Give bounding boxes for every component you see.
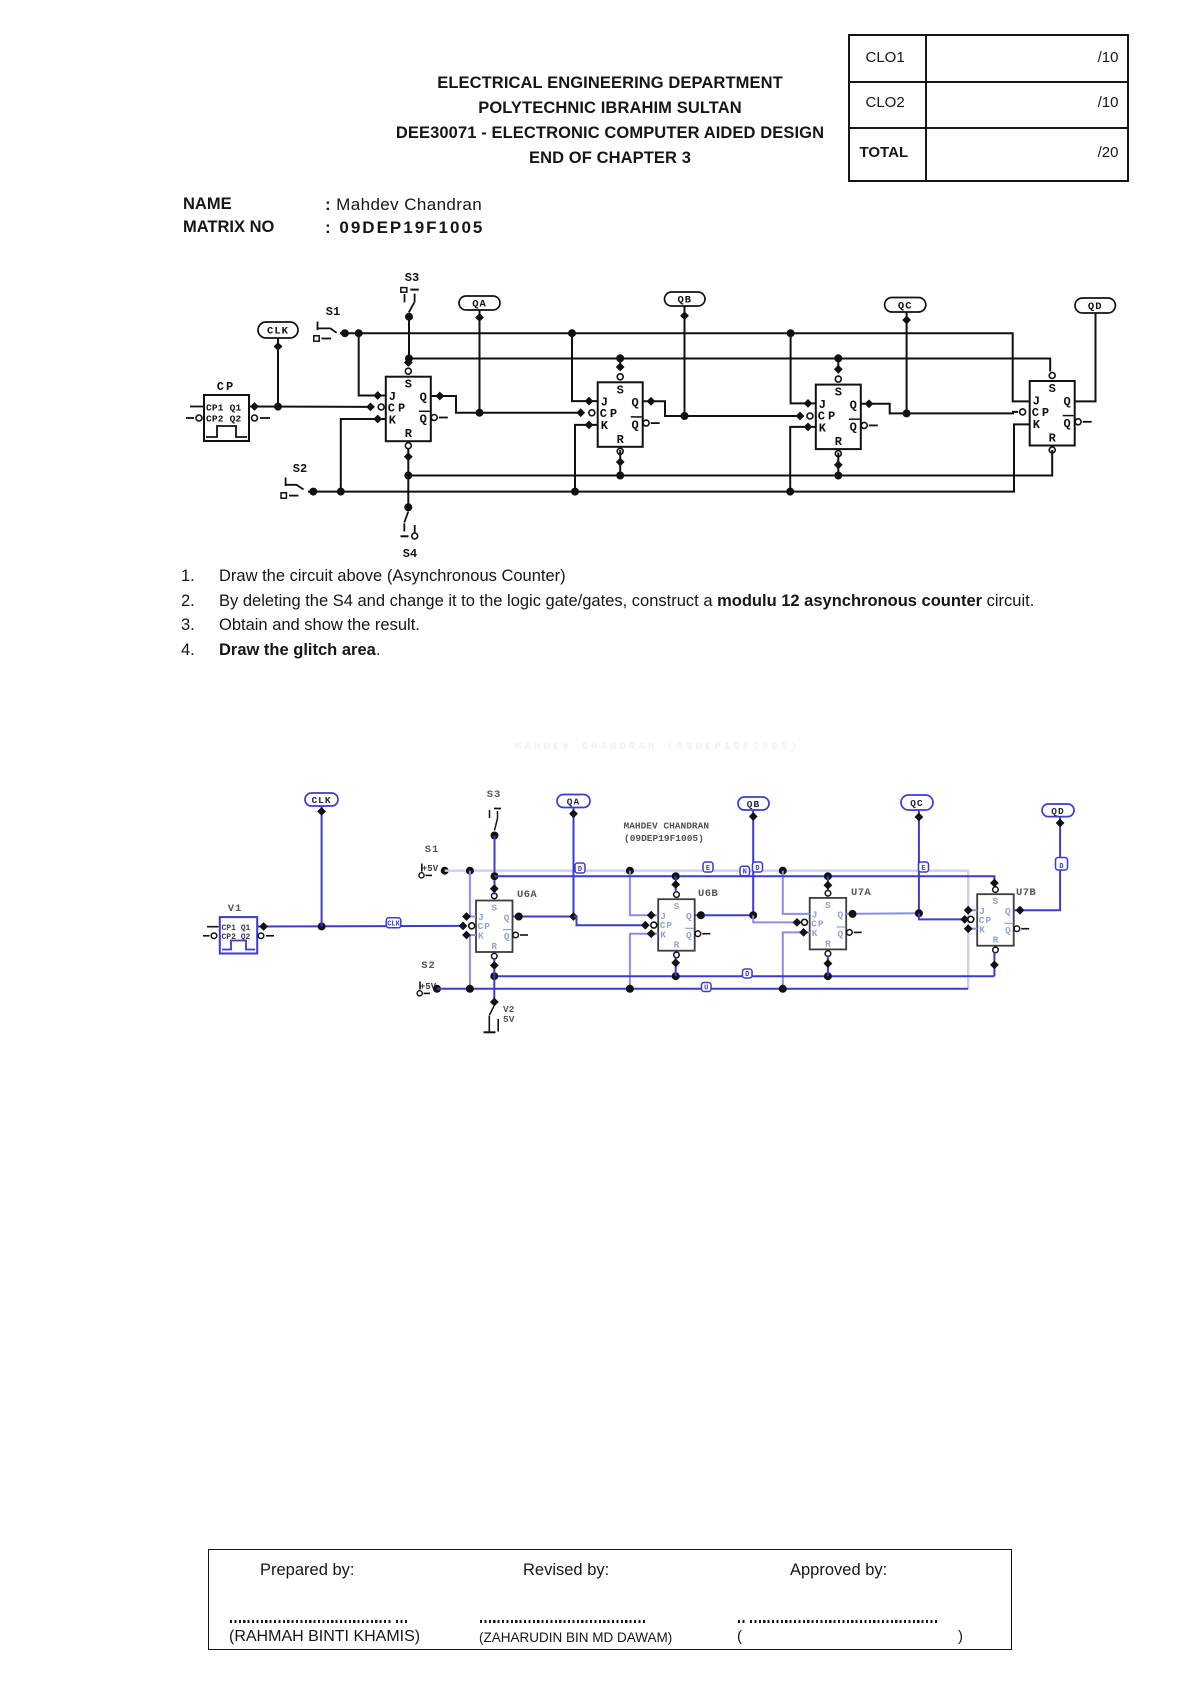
junction K drop FF1 (337, 488, 345, 496)
junction R drop FF1 (404, 472, 412, 480)
JK flip-flop U6B (658, 892, 710, 958)
wire U6B R drop (675, 958, 677, 977)
pin node CLK flag (274, 342, 283, 351)
wire S rail to U6B S (675, 876, 677, 892)
pulse source V1 (203, 903, 274, 954)
svg-text:S2: S2 (293, 462, 307, 476)
svg-text:5V: 5V (503, 1014, 515, 1025)
wire FF4 Q to QD flag (1075, 313, 1096, 401)
svg-text:S: S (993, 896, 999, 907)
wire S3 to U6A S (494, 836, 496, 895)
clock bubble FF1 (378, 404, 384, 410)
svg-text:K: K (819, 421, 827, 435)
marks table (848, 34, 1129, 182)
svg-text:CP2 Q2: CP2 Q2 (206, 414, 242, 425)
pin node FF1 S (404, 358, 413, 367)
net flag QC (885, 298, 926, 313)
junction CLK tap (274, 403, 282, 411)
junction R drop FF3 (834, 472, 842, 480)
wire CLK flag drop (321, 806, 323, 926)
pin node U7B R (990, 961, 999, 970)
switch S3 (401, 271, 419, 312)
wire U7A K drop (783, 932, 810, 988)
svg-text:Q: Q (837, 929, 843, 940)
wire QC flag drop (918, 810, 920, 913)
pin node U6A J (462, 912, 471, 921)
svg-text:Q: Q (850, 399, 857, 413)
pin node QA flag (569, 809, 578, 818)
pin node FF1 Q (435, 392, 444, 401)
svg-text:MAHDEV CHANDRAN (09DEP19F1005): MAHDEV CHANDRAN (09DEP19F1005) (515, 741, 800, 753)
junction JK drop U6A (466, 867, 474, 875)
junction S2 lever (309, 488, 317, 496)
junction S rail origin (405, 355, 413, 363)
switch S1 (314, 305, 340, 341)
svg-text:Q: Q (504, 912, 510, 923)
svg-text:N: N (743, 869, 747, 877)
svg-text:S2: S2 (421, 960, 436, 972)
wire rail to FF3 J (791, 333, 816, 403)
net flag CLK (blue) (305, 793, 338, 806)
JK flip-flop FF2 (598, 374, 660, 455)
clock bubble U6A (469, 923, 475, 929)
switch S2 (281, 462, 307, 498)
svg-text:+5V: +5V (422, 864, 439, 874)
junction S3 lever (405, 313, 413, 321)
pin node FF2 J (585, 397, 594, 406)
svg-text:E: E (706, 865, 710, 873)
wire U6B Q to QB junction (695, 914, 754, 916)
svg-text:CLK: CLK (387, 921, 400, 929)
net flag QA (blue) (557, 795, 590, 808)
wire K rail (S2 +5V) (437, 988, 968, 990)
pin node QD flag (1056, 819, 1065, 828)
net flag QC (blue) (901, 795, 933, 810)
JK flip-flop FF3 (816, 376, 878, 457)
wire U6A K stub (470, 934, 476, 936)
pin node U7A Q (849, 910, 857, 918)
pin node U7A CP (793, 918, 802, 927)
pin node QB flag (749, 812, 758, 821)
wire U6A R to V2 (493, 958, 495, 1000)
wire U7A Q to QC junction (846, 912, 919, 915)
wire FF1 Q to FF2 CP (431, 396, 581, 413)
net flag QD (1075, 298, 1115, 313)
svg-text:QB: QB (747, 799, 760, 810)
svg-text:R: R (617, 433, 625, 447)
junction R drop U6A (490, 972, 498, 980)
wire rail to FF1 J (359, 333, 386, 395)
wire K rail from S2 to FF4 K (308, 424, 1030, 491)
switch S1 (+5V) (419, 844, 439, 878)
pin node U7B CP (960, 915, 969, 924)
junction S drop FF2 (616, 354, 624, 362)
svg-text:QD: QD (1088, 301, 1103, 313)
junction J drop FF2 (568, 329, 576, 337)
svg-text:R: R (835, 435, 843, 449)
pin node FF3 CP (796, 412, 805, 421)
JK flip-flop U7B (977, 887, 1029, 953)
svg-text:Q: Q (420, 413, 427, 427)
svg-text:D: D (755, 865, 759, 873)
clock bubble U7A (802, 919, 808, 925)
wire K rail to FF3 K (790, 427, 816, 492)
junction S1 lever (341, 329, 349, 337)
svg-text:D: D (745, 971, 749, 979)
svg-text:R: R (405, 427, 413, 441)
svg-text:U7A: U7A (851, 887, 871, 899)
pin node U7A K (799, 928, 808, 937)
pin node U6B R (671, 958, 680, 967)
pin node FF1 R (404, 452, 413, 461)
junction K drop U7A (779, 985, 787, 993)
svg-text:R: R (1049, 432, 1057, 446)
svg-text:U6B: U6B (698, 888, 718, 900)
header title block (437, 74, 783, 93)
junction S1 output (441, 867, 449, 875)
pin node FF1 K (373, 415, 382, 424)
wire U6A K drop (469, 935, 471, 989)
net flag QA (459, 296, 500, 311)
pin node FF1 CP (366, 403, 375, 412)
pin node U6B J (647, 911, 656, 920)
pin node FF2 CP (576, 408, 585, 417)
junction K drop U6B (626, 985, 634, 993)
net label D (753, 862, 763, 873)
svg-text:QC: QC (910, 798, 923, 809)
svg-text:S: S (617, 383, 624, 397)
wire QB flag drop (752, 810, 754, 915)
JK flip-flop FF1 (386, 368, 448, 449)
svg-text:Q: Q (1005, 925, 1011, 936)
wire QC net to U7B CP (919, 913, 965, 919)
wire S3 to S rail (408, 317, 410, 364)
wire R rail across (408, 450, 1052, 476)
junction S drop U7A (824, 872, 832, 880)
wire FF3 Q to FF4 CP (861, 404, 1018, 414)
pulse source CP (186, 380, 270, 441)
wire CLK flag to CP net (277, 338, 279, 407)
svg-text:K: K (601, 419, 609, 433)
wire QB flag drop (684, 306, 686, 416)
svg-text:K: K (660, 929, 666, 940)
svg-text:S: S (835, 386, 842, 400)
wire U7B R drop (993, 953, 995, 977)
pin node QA flag (475, 313, 484, 322)
junction R drop U6B (672, 972, 680, 980)
switch S3 (circuit 2) (487, 789, 502, 831)
wire S rail to U7A S (827, 876, 829, 890)
net label E (919, 862, 929, 873)
svg-text:E: E (921, 865, 925, 873)
wire U7A R drop (827, 956, 829, 976)
switch S2 (+5V) (417, 960, 437, 996)
svg-text:S: S (674, 901, 680, 912)
question list (181, 567, 195, 586)
svg-text:R: R (825, 938, 831, 949)
wire S rail to FF2 S (619, 358, 621, 369)
pin node U7A S (824, 881, 833, 890)
wire S rail across to FF4 S (409, 359, 1050, 372)
wire FF1 R to S4 (407, 449, 409, 507)
junction QA tap (476, 409, 484, 417)
svg-text:S4: S4 (403, 547, 417, 561)
wire rail to U7A J (783, 871, 810, 914)
junction J drop FF3 (787, 329, 795, 337)
svg-text:Q: Q (504, 931, 510, 942)
junction K drop U6A (466, 985, 474, 993)
junction R drop FF2 (616, 472, 624, 480)
junction CLK tap (318, 922, 326, 930)
pin node U6B K (647, 929, 656, 938)
pin node FF2 Q (647, 397, 656, 406)
wire FF2 R drop (619, 450, 621, 476)
net flag CLK (258, 322, 298, 338)
clock bubble FF2 (589, 410, 595, 416)
junction S rail origin (491, 872, 499, 880)
net label E (703, 862, 713, 873)
clock bubble FF4 (1020, 409, 1026, 415)
pin node U7B K (964, 924, 973, 933)
wire V1 Q1 to U6A CP (257, 925, 463, 928)
pin node U7B Q out (1016, 906, 1025, 915)
wire U7B K stub (968, 928, 977, 930)
junction QA tap (569, 912, 578, 921)
svg-text:V1: V1 (228, 903, 243, 915)
wire CP source Q1 to FF1 CP (249, 406, 371, 408)
pin node U6A R (490, 961, 499, 970)
svg-text:U6A: U6A (517, 889, 537, 901)
svg-text:S1: S1 (326, 305, 340, 319)
pin node FF3 S (834, 365, 843, 374)
pin node U7B J (964, 906, 973, 915)
wire +5V lavender rail (445, 871, 969, 989)
pin node FF3 R (834, 461, 843, 470)
svg-text:U7B: U7B (1016, 887, 1036, 899)
pin node U6A K (462, 931, 471, 940)
battery V2 5V (484, 998, 515, 1033)
JK flip-flop U6A (476, 893, 528, 959)
svg-text:S: S (405, 378, 412, 392)
junction S drop U6B (672, 872, 680, 880)
junction K drop FF3 (786, 488, 794, 496)
pin node U7B S (990, 879, 999, 888)
pin node V1 Q1 (259, 922, 268, 931)
junction K drop FF2 (571, 488, 579, 496)
net label CLK (386, 918, 401, 929)
pin node U6B S (671, 880, 680, 889)
svg-text:Q: Q (850, 421, 857, 435)
junction JK drop U7A (779, 867, 787, 875)
pin node U6B Q (697, 911, 705, 919)
switch S4 (401, 503, 418, 561)
pin node U7A R (824, 959, 833, 968)
junction QC tap (903, 409, 911, 417)
signature footer table (208, 1549, 1012, 1650)
svg-text:Q: Q (1063, 417, 1070, 431)
wire QA flag drop (573, 808, 575, 917)
svg-text:Q: Q (631, 396, 638, 410)
pin node FF1 J (373, 391, 382, 400)
pin node FF3 K (804, 423, 813, 432)
svg-text:MAHDEV CHANDRAN: MAHDEV CHANDRAN (624, 821, 710, 832)
net label N (740, 866, 750, 876)
wire FF2 Q to FF3 CP (643, 401, 800, 416)
wire FF3 R drop (837, 453, 839, 476)
svg-text:S: S (1049, 382, 1056, 396)
pin node U6B CP (641, 921, 650, 930)
wire U7B J stub (968, 909, 977, 911)
pin node FF2 S (616, 363, 625, 372)
junction S2 output (433, 985, 441, 993)
svg-text:U: U (704, 984, 708, 992)
clock bubble U7B (968, 916, 974, 922)
svg-text:D: D (578, 866, 582, 874)
net flag QD (blue) (1042, 804, 1074, 817)
clock bubble FF3 (807, 413, 813, 419)
JK flip-flop U7A (810, 891, 862, 957)
pin node Q1 (250, 402, 259, 411)
name / matrix block (183, 195, 232, 214)
svg-text:QC: QC (898, 300, 913, 312)
pin node U6A S (490, 884, 499, 893)
svg-text:R: R (993, 935, 999, 946)
wire K rail to FF1 K (341, 419, 386, 492)
svg-text:QA: QA (567, 797, 580, 808)
pin node FF2 R (616, 458, 625, 467)
svg-text:CLK: CLK (311, 795, 331, 806)
pin node V2 (490, 998, 499, 1007)
svg-text:Q: Q (1005, 906, 1011, 917)
net label U (702, 983, 712, 993)
net label D (1056, 858, 1068, 871)
svg-text:Q: Q (686, 930, 692, 941)
wire rail to FF2 J (572, 333, 598, 401)
junction J drop FF1 (355, 329, 363, 337)
wire U6A Q to QA junction (513, 916, 574, 918)
wire QC flag drop (906, 312, 908, 413)
svg-text:(09DEP19F1005): (09DEP19F1005) (624, 833, 704, 844)
svg-text:S: S (491, 903, 497, 914)
svg-text:S: S (825, 900, 831, 911)
pin node QC flag (915, 813, 924, 822)
pin node U6A CP (459, 922, 468, 931)
svg-text:Q: Q (686, 911, 692, 922)
junction S3 lever (491, 832, 499, 840)
clock bubble U6B (651, 922, 657, 928)
wire J rail from S1 to FF4 J (340, 333, 1030, 401)
svg-text:S1: S1 (425, 844, 440, 856)
pin node QB flag (680, 311, 689, 320)
svg-text:Q: Q (631, 418, 638, 432)
wire QA flag drop (479, 310, 481, 413)
svg-text:CP: CP (217, 380, 235, 394)
svg-text:K: K (812, 928, 818, 939)
svg-text:S3: S3 (487, 789, 502, 801)
junction JK drop U6B (626, 867, 634, 875)
pin node QC flag (902, 316, 911, 325)
svg-text:R: R (491, 941, 497, 952)
wire K rail to FF2 K (575, 425, 598, 492)
net label D (575, 863, 585, 874)
svg-text:QB: QB (677, 295, 692, 307)
svg-text:R: R (674, 940, 680, 951)
svg-text:QA: QA (472, 299, 487, 311)
wire rail to U6A J (470, 871, 476, 917)
wire rail to U6B J (630, 871, 658, 916)
junction QB tap (749, 911, 757, 919)
svg-text:CP1 Q1: CP1 Q1 (206, 403, 242, 414)
svg-text:D: D (1059, 863, 1063, 871)
junction QC tap (915, 909, 923, 917)
JK flip-flop FF4 (1030, 373, 1092, 454)
wire R rail (494, 975, 994, 977)
wire QA net to U6B CP (574, 917, 646, 926)
wire QB net to U7A CP (753, 915, 797, 922)
svg-text:Q: Q (1063, 395, 1070, 409)
net flag QB (665, 292, 706, 307)
svg-text:S3: S3 (405, 271, 419, 285)
pin node U6A Q (515, 913, 523, 921)
svg-text:Q: Q (837, 910, 843, 921)
svg-text:K: K (478, 931, 484, 942)
wire U6B K drop (630, 934, 658, 989)
svg-text:K: K (979, 924, 985, 935)
wire S rail to FF3 S (837, 358, 839, 371)
svg-text:K: K (1033, 418, 1041, 432)
pin node FF3 J (804, 399, 813, 408)
junction S drop FF3 (834, 354, 842, 362)
junction R drop U7A (824, 972, 832, 980)
pin node CLK flag (317, 807, 326, 816)
svg-text:QD: QD (1051, 806, 1064, 817)
net label D (743, 969, 753, 979)
net flag QB (blue) (738, 797, 769, 810)
svg-text:K: K (389, 414, 397, 428)
svg-text:CP1 Q1: CP1 Q1 (222, 924, 251, 933)
pin node FF3 Q (865, 399, 874, 408)
junction QB tap (681, 412, 689, 420)
svg-text:Q: Q (420, 391, 427, 405)
pin node FF2 K (585, 421, 594, 430)
svg-text:CLK: CLK (267, 326, 289, 338)
junction S4 lever (404, 503, 412, 511)
wire U7B Q to QD flag (1014, 817, 1060, 911)
wire S rail across to U7B S (495, 876, 995, 888)
